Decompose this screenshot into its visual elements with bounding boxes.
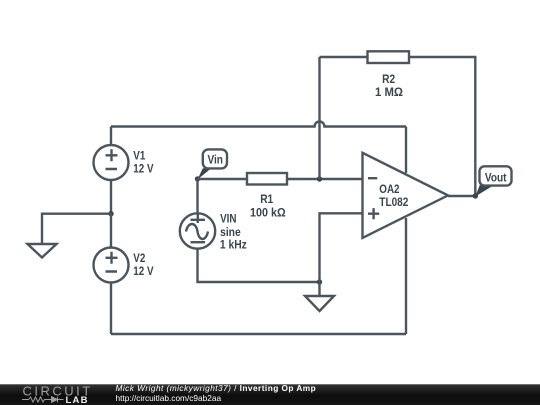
svg-text:R2: R2: [382, 73, 395, 86]
wire top rail from V1 to op-amp V+ pin with hop over feedback wire: [111, 122, 406, 127]
wire op-amp V+ pin: [405, 127, 407, 174]
op-amp minus input mark: [368, 177, 377, 179]
node output: [473, 193, 478, 198]
svg-text:1 MΩ: 1 MΩ: [375, 87, 403, 99]
ground left: [28, 244, 57, 258]
svg-text:VIN: VIN: [220, 213, 237, 226]
svg-text:1 kHz: 1 kHz: [220, 239, 247, 252]
wire R2 to output node: [409, 57, 475, 196]
svg-text:TL082: TL082: [379, 196, 408, 209]
wire ground stem: [318, 282, 320, 296]
resistor R2: [368, 51, 410, 63]
voltage source V2: [94, 214, 129, 283]
footer credit line: [116, 383, 317, 403]
svg-text:12 V: 12 V: [133, 163, 154, 176]
flag Vout: [475, 166, 511, 196]
label R1 value: [250, 193, 286, 220]
voltage source VIN sine: [180, 213, 215, 248]
resistor R1: [247, 173, 287, 185]
svg-text:http://circuitlab.com/c9ab2aa: http://circuitlab.com/c9ab2aa: [116, 393, 222, 403]
svg-text:100 kΩ: 100 kΩ: [250, 207, 286, 219]
wire V1 bottom to junction: [110, 180, 112, 214]
label V2 value: [133, 252, 154, 278]
svg-text:LAB: LAB: [66, 395, 89, 405]
voltage source V1: [94, 145, 129, 180]
wire R1 to op-amp inverting input: [287, 178, 363, 180]
wire junction to left ground: [42, 214, 111, 244]
wire non-inverting input: [320, 213, 363, 282]
node Vin: [195, 176, 200, 181]
svg-text:OA2: OA2: [379, 183, 399, 196]
node inverting input / feedback: [317, 176, 322, 181]
wire Vin node to R1: [198, 178, 248, 180]
node junction V1/V2/ground: [108, 211, 113, 216]
label OA2 TL082: [379, 183, 408, 209]
ground middle: [305, 296, 334, 311]
wire feedback top to R2: [320, 56, 368, 58]
wire bottom rail to op-amp V- pin: [111, 333, 406, 335]
svg-text:Vin: Vin: [207, 154, 222, 167]
wire op-amp V- pin: [405, 218, 407, 334]
svg-text:sine: sine: [220, 226, 241, 239]
wire VIN bottom to middle ground junction: [198, 249, 320, 282]
svg-text:R1: R1: [260, 193, 273, 206]
svg-text:12 V: 12 V: [133, 265, 154, 278]
flag Vin: [198, 149, 228, 179]
label V1 value: [133, 150, 154, 176]
wire VIN top stem: [196, 179, 198, 213]
label R2 value: [375, 73, 403, 99]
svg-text:V1: V1: [133, 150, 145, 163]
wire V1 top stem: [110, 127, 112, 146]
op-amp OA2 triangle: [363, 153, 449, 238]
svg-text:V2: V2: [133, 252, 145, 265]
node middle ground junction: [317, 279, 322, 284]
wire feedback vertical: [318, 57, 320, 179]
wire V2 bottom stem: [110, 283, 112, 335]
wire output: [448, 195, 475, 197]
svg-text:Vout: Vout: [485, 172, 507, 185]
op-amp plus input mark: [368, 208, 379, 219]
label VIN value: [220, 213, 247, 252]
logo resistor-diode squiggle: [22, 397, 64, 403]
svg-text:Mick Wright (mickywright37) /: Mick Wright (mickywright37) / Inverting …: [116, 383, 317, 393]
